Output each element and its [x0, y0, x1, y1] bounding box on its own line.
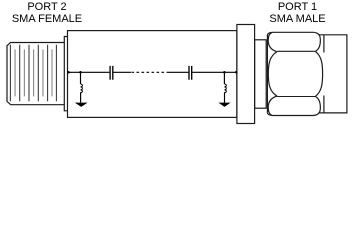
main body [68, 31, 237, 118]
label PORT 1 / SMA MALE [250, 1, 345, 25]
capacitor C1 [110, 66, 113, 80]
collar washer [255, 40, 267, 108]
left silhouette edge [266, 35, 268, 113]
wire C2 to right wall [192, 71, 237, 73]
inductor L2 (coil) [224, 84, 226, 93]
flange [237, 25, 255, 124]
middle facet left arc [268, 52, 277, 97]
hex nut (SMA male) [267, 32, 322, 115]
left shunt branch wire down [80, 72, 82, 84]
dashed wire (omitted section) [132, 71, 169, 73]
facet line lower [277, 96, 315, 98]
plug barrel [319, 35, 347, 113]
neck between nut and body [64, 37, 67, 111]
wire C1 to dashed section [113, 71, 131, 73]
outer outline top/bottom edges with corner arcs [267, 32, 320, 38]
ground symbol right (solid triangle) [218, 103, 230, 107]
bottom-left chamfer arc [268, 96, 277, 115]
bottom-right chamfer arc [316, 97, 321, 110]
middle facet right arc [316, 52, 323, 97]
wire L2 to ground [224, 93, 226, 103]
knurled coupling nut (SMA female) [7, 43, 64, 105]
label PORT 2 / SMA FEMALE [0, 1, 94, 25]
capacitor C2 [189, 66, 192, 80]
facet line upper [277, 50, 315, 52]
schematic: wire from body left wall to C1 [68, 71, 110, 73]
top-right chamfer arc [316, 39, 321, 52]
ground symbol left (solid triangle) [75, 103, 88, 107]
knurl lines [10, 45, 56, 101]
junction node at right shunt branch [223, 71, 226, 74]
wire L1 to ground [80, 93, 82, 103]
wire dashed section to C2 [168, 71, 188, 73]
inductor L1 (coil) [80, 84, 82, 93]
top-left chamfer arc [268, 33, 277, 52]
junction node at left wall [67, 71, 70, 74]
right shunt branch wire down [223, 72, 225, 84]
junction node at right wall [235, 71, 238, 74]
junction node at left shunt branch [79, 71, 82, 74]
